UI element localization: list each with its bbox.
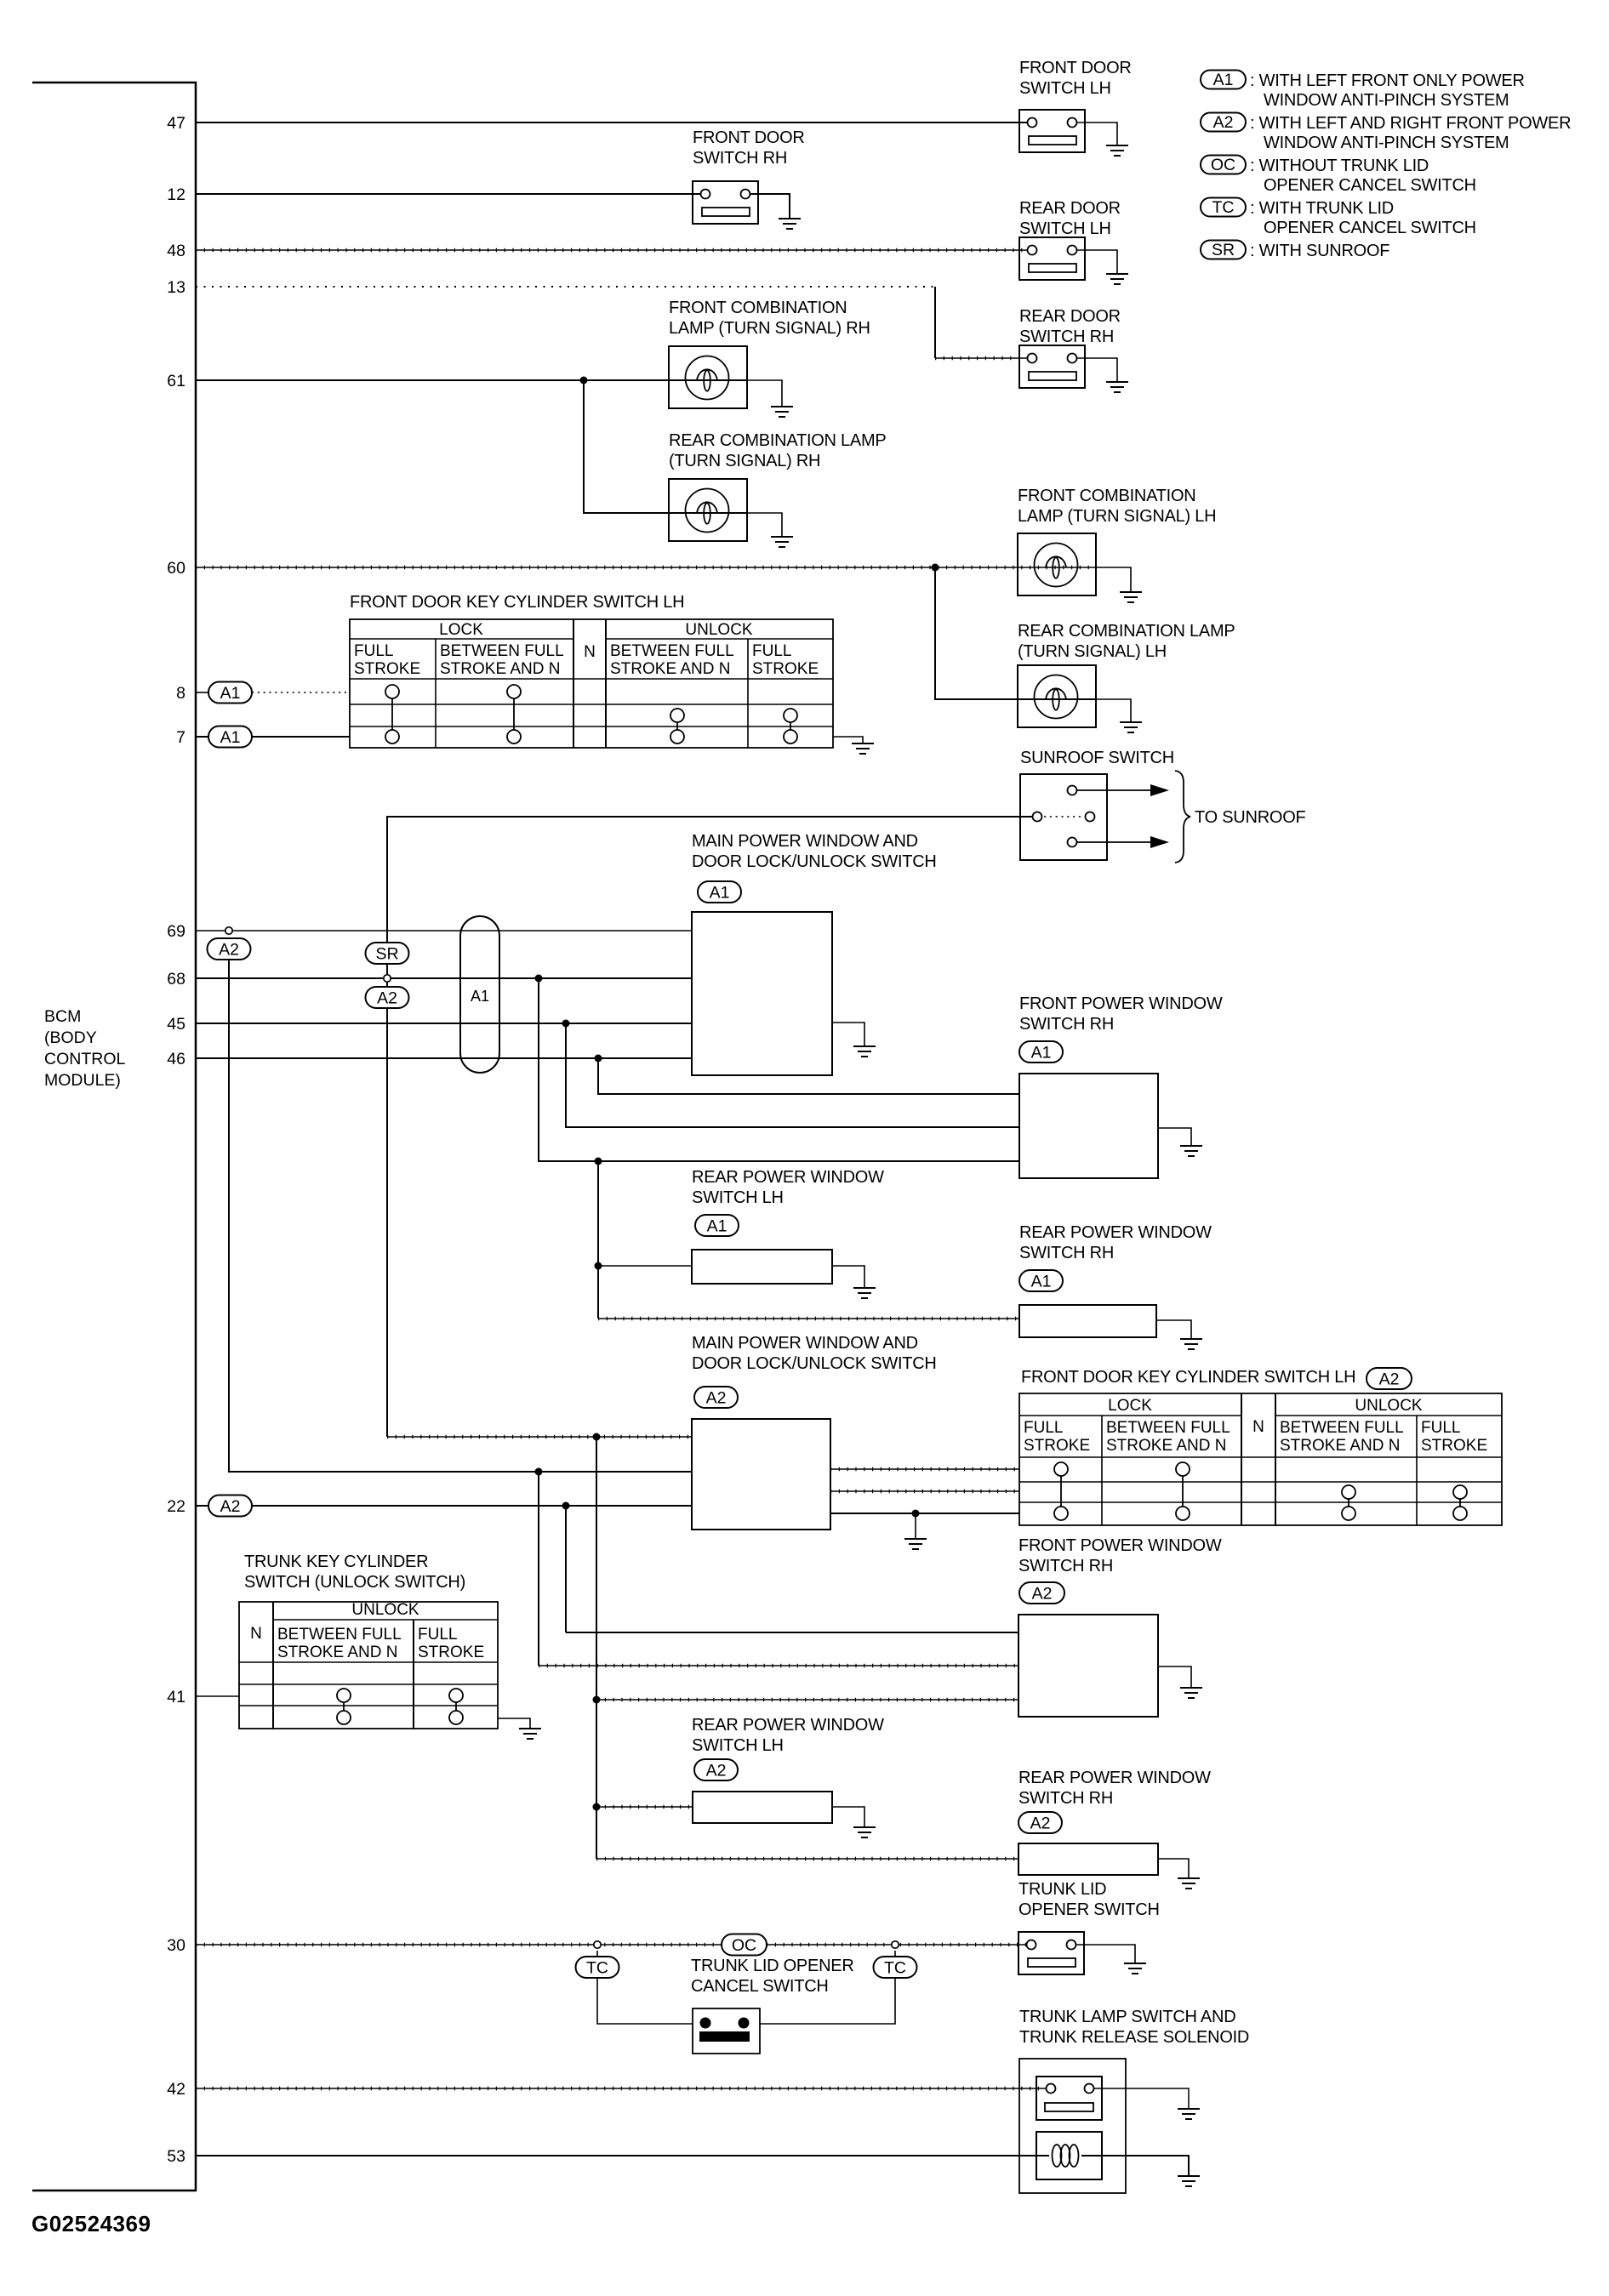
svg-text:STROKE AND N: STROKE AND N (610, 660, 730, 678)
svg-text:FRONT POWER WINDOW: FRONT POWER WINDOW (1018, 1536, 1222, 1555)
wire to front RH A2 pin3 (596, 1699, 1018, 1701)
connector circle TC left (594, 1941, 601, 1948)
rear power window switch LH A2 box (693, 1792, 832, 1823)
front door key cylinder switch LH table A2 (1019, 1393, 1502, 1525)
wire 45 tap to front power window switch RH A1 pin2 (566, 1023, 1019, 1127)
svg-text:41: 41 (167, 1688, 185, 1706)
wire 60 branch down to rear combination lamp LH (935, 567, 1096, 699)
svg-text:MAIN POWER WINDOW AND: MAIN POWER WINDOW AND (692, 832, 918, 851)
svg-text:(TURN SIGNAL) RH: (TURN SIGNAL) RH (669, 452, 820, 470)
wire 13 dotted (196, 286, 935, 288)
option oval A1 (695, 1215, 739, 1236)
front power window switch RH A1 box (1019, 1074, 1158, 1178)
key cylinder A1 ground wire (833, 737, 863, 743)
svg-text:46: 46 (167, 1050, 185, 1068)
trunk lid opener cancel switch (693, 2008, 760, 2054)
wire A2 pin2 tap down (538, 1472, 539, 1666)
trunk lid opener switch (1018, 1932, 1084, 1974)
svg-text:A2: A2 (706, 1389, 727, 1408)
trunk release solenoid ground wire (1081, 2156, 1189, 2176)
wire 22 tap down (565, 1506, 567, 1632)
trunk key cylinder switch table (239, 1601, 498, 1729)
front combination lamp LH (1018, 533, 1096, 595)
svg-text:BETWEEN FULL: BETWEEN FULL (277, 1626, 402, 1644)
svg-text:OPENER SWITCH: OPENER SWITCH (1018, 1900, 1160, 1919)
front combination lamp LH ground wire (1096, 567, 1131, 592)
junction dot wire 46 (595, 1055, 602, 1063)
front RH A1 ground wire (1158, 1128, 1191, 1146)
svg-text:DOOR LOCK/UNLOCK SWITCH: DOOR LOCK/UNLOCK SWITCH (692, 852, 937, 871)
rear LH A1 ground wire (832, 1266, 864, 1288)
junction dot rear LH A1 (595, 1262, 602, 1270)
svg-text:TC: TC (586, 1959, 608, 1978)
sunroof arrow top (1077, 789, 1150, 791)
wire 42 (196, 2088, 1046, 2089)
svg-text:47: 47 (167, 114, 185, 133)
svg-text:TC: TC (1212, 198, 1235, 217)
svg-text:FULL: FULL (1024, 1419, 1063, 1437)
svg-text:A2: A2 (377, 989, 397, 1008)
svg-text:A1: A1 (707, 1217, 727, 1236)
A2 ground stub (915, 1513, 916, 1539)
connector circle wire 69 (225, 927, 232, 934)
junction dot on wire 61 (580, 377, 588, 385)
svg-text:N: N (584, 643, 596, 661)
option oval A2 (694, 1387, 738, 1408)
svg-text:A2: A2 (1030, 1815, 1051, 1833)
svg-text:FRONT DOOR: FRONT DOOR (1019, 59, 1132, 77)
wire to sunroof switch (387, 817, 1032, 944)
wire 61 branch down (584, 380, 747, 513)
option oval A2 (1019, 1582, 1064, 1604)
svg-text:WINDOW ANTI-PINCH SYSTEM: WINDOW ANTI-PINCH SYSTEM (1264, 134, 1509, 152)
svg-text:N: N (250, 1625, 262, 1643)
svg-text:SWITCH LH: SWITCH LH (1019, 219, 1111, 238)
svg-text:STROKE AND N: STROKE AND N (277, 1644, 397, 1661)
A2 switch output wire row2 (830, 1490, 1019, 1492)
svg-text:A2: A2 (219, 941, 239, 960)
svg-text:CONTROL: CONTROL (44, 1050, 125, 1068)
wire 68 (196, 977, 692, 979)
ground (771, 407, 793, 417)
svg-text:STROKE: STROKE (1024, 1437, 1090, 1455)
svg-text:A1: A1 (471, 988, 489, 1005)
svg-text:: WITH SUNROOF: : WITH SUNROOF (1250, 242, 1389, 260)
svg-text:SWITCH LH: SWITCH LH (692, 1188, 784, 1207)
BCM body control module outline (32, 83, 196, 2191)
svg-text:OC: OC (732, 1936, 756, 1955)
svg-text:TRUNK RELEASE SOLENOID: TRUNK RELEASE SOLENOID (1019, 2028, 1249, 2047)
connector circle TC right (892, 1941, 899, 1948)
junction dot on wire 60 (932, 564, 939, 572)
option oval TC right (874, 1957, 917, 1978)
svg-text:LOCK: LOCK (1108, 1397, 1152, 1415)
svg-text:FULL: FULL (1421, 1419, 1460, 1437)
svg-text:13: 13 (167, 278, 185, 297)
svg-text:CANCEL SWITCH: CANCEL SWITCH (691, 1977, 829, 1996)
wire 48 (196, 249, 1027, 251)
option oval A2 on wire 22 (208, 1496, 252, 1517)
svg-text:A2: A2 (706, 1762, 727, 1780)
wire 12 (196, 193, 700, 195)
junction dot A2 pin2 wire (535, 1468, 543, 1476)
svg-text:SWITCH RH: SWITCH RH (693, 149, 787, 168)
wire to front RH A2 pin1 (566, 1632, 1018, 1633)
svg-text:REAR DOOR: REAR DOOR (1019, 307, 1121, 326)
rear combination lamp RH (669, 479, 747, 541)
rear combination lamp LH (1018, 665, 1096, 727)
svg-text:: WITH TRUNK LID: : WITH TRUNK LID (1250, 199, 1394, 218)
ground (1180, 1688, 1202, 1698)
svg-text:A1: A1 (220, 728, 241, 747)
wire to rear power window switch LH A1 (598, 1265, 692, 1267)
svg-text:DOOR LOCK/UNLOCK SWITCH: DOOR LOCK/UNLOCK SWITCH (692, 1354, 937, 1373)
svg-text:REAR POWER WINDOW: REAR POWER WINDOW (692, 1716, 884, 1735)
front power window switch RH A2 box (1018, 1615, 1158, 1717)
vertical wire to rear power window switches A1 (597, 1161, 599, 1319)
svg-text:SWITCH (UNLOCK SWITCH): SWITCH (UNLOCK SWITCH) (244, 1573, 465, 1592)
option oval A1 (1019, 1041, 1063, 1063)
svg-text:OC: OC (1211, 156, 1235, 174)
svg-text:30: 30 (167, 1936, 185, 1955)
trunk lamp switch ground wire (1094, 2088, 1189, 2109)
option oval A2 under wire 69 (208, 938, 251, 960)
svg-text:: WITH LEFT AND RIGHT FRONT PO: : WITH LEFT AND RIGHT FRONT POWER (1250, 114, 1571, 133)
svg-text:STROKE AND N: STROKE AND N (440, 660, 560, 678)
svg-text:FRONT COMBINATION: FRONT COMBINATION (1018, 487, 1195, 505)
legend oval A1 (1201, 71, 1246, 89)
junction dot A2 pin1 wire (593, 1433, 601, 1441)
svg-text:LAMP (TURN SIGNAL) RH: LAMP (TURN SIGNAL) RH (669, 319, 870, 338)
wire A2 tap down from wire 68 (386, 1008, 388, 1437)
junction dot wire 45 (562, 1020, 570, 1028)
svg-text:STROKE: STROKE (1421, 1437, 1487, 1455)
junction dot pin3 wire (593, 1696, 601, 1704)
front door key cylinder switch LH table A1 (350, 619, 833, 748)
wire A2 tap down from wire 69 (229, 960, 692, 1472)
wire SR oval to wire 68 (386, 964, 388, 987)
rear power window switch RH A1 box (1019, 1305, 1156, 1337)
junction dot wire 22 (562, 1502, 570, 1510)
ground (1106, 145, 1128, 156)
vertical wire down from A2 pin1 wire (596, 1437, 597, 1859)
svg-text:REAR COMBINATION LAMP: REAR COMBINATION LAMP (669, 431, 887, 450)
svg-text:12: 12 (167, 185, 185, 204)
wire to rear door switch RH (935, 357, 1027, 359)
svg-text:TO SUNROOF: TO SUNROOF (1195, 808, 1306, 827)
wire 69 (196, 930, 692, 932)
option oval OC on wire 30 (722, 1934, 767, 1956)
svg-text:OPENER CANCEL SWITCH: OPENER CANCEL SWITCH (1264, 176, 1476, 195)
trunk lamp switch and solenoid outer box (1019, 2059, 1126, 2193)
svg-text:STROKE: STROKE (752, 660, 819, 678)
svg-text:(BODY: (BODY (44, 1028, 97, 1047)
svg-text:SWITCH LH: SWITCH LH (692, 1736, 784, 1755)
svg-text:SWITCH RH: SWITCH RH (1018, 1789, 1113, 1808)
option oval A1 on wire 8 (208, 682, 252, 704)
svg-text:A2: A2 (1379, 1370, 1400, 1389)
brace to sunroof (1175, 771, 1190, 863)
svg-text:REAR POWER WINDOW: REAR POWER WINDOW (692, 1168, 884, 1187)
capsule A1 (460, 916, 499, 1073)
svg-text:OPENER CANCEL SWITCH: OPENER CANCEL SWITCH (1264, 219, 1476, 237)
wire 45 (196, 1023, 692, 1024)
legend oval TC (1201, 198, 1246, 217)
A2 switch output wire row3 (830, 1513, 1019, 1514)
ground (1120, 592, 1142, 602)
wire 47 (196, 122, 1027, 123)
sunroof arrow bottom (1077, 841, 1150, 843)
legend oval OC (1201, 156, 1246, 174)
ground (1180, 1339, 1202, 1349)
svg-text:69: 69 (167, 922, 185, 941)
wire 46 tap to front power window switch RH A1 pin1 (598, 1058, 1019, 1094)
svg-text:: WITH LEFT FRONT ONLY POWER: : WITH LEFT FRONT ONLY POWER (1250, 71, 1525, 90)
svg-text:REAR POWER WINDOW: REAR POWER WINDOW (1018, 1769, 1211, 1787)
ground (1124, 1963, 1146, 1974)
ground (1178, 2176, 1200, 2186)
rear combination lamp LH ground wire (1096, 699, 1131, 722)
svg-text:SWITCH RH: SWITCH RH (1019, 328, 1114, 346)
wire 46 (196, 1057, 692, 1059)
svg-text:22: 22 (167, 1497, 185, 1516)
svg-text:TC: TC (884, 1959, 906, 1978)
svg-text:FULL: FULL (418, 1626, 457, 1644)
rear door switch LH ground wire (1077, 250, 1117, 274)
rear door switch LH (1019, 237, 1085, 280)
svg-text:SUNROOF SWITCH: SUNROOF SWITCH (1020, 749, 1174, 767)
option oval A1 (698, 881, 741, 903)
trunk lamp switch inner box (1036, 2077, 1102, 2120)
svg-text:7: 7 (176, 728, 185, 747)
svg-text:BETWEEN FULL: BETWEEN FULL (1106, 1419, 1230, 1437)
svg-text:N: N (1252, 1418, 1264, 1436)
svg-text:BCM: BCM (44, 1007, 81, 1026)
option oval TC left (576, 1957, 619, 1978)
legend oval A2 (1201, 113, 1246, 132)
svg-text:: WITHOUT TRUNK LID: : WITHOUT TRUNK LID (1250, 157, 1429, 175)
ground (779, 219, 801, 229)
svg-text:TRUNK LID: TRUNK LID (1018, 1880, 1106, 1899)
svg-text:A1: A1 (1031, 1273, 1052, 1291)
option oval A1 on wire 7 (208, 726, 252, 748)
wire 13 vertical to rear door switch RH (934, 287, 936, 358)
svg-text:FRONT DOOR KEY CYLINDER SWITCH: FRONT DOOR KEY CYLINDER SWITCH LH (350, 593, 684, 612)
legend oval SR (1201, 241, 1246, 259)
front door switch LH ground wire (1077, 122, 1117, 145)
svg-text:STROKE AND N: STROKE AND N (1280, 1437, 1400, 1455)
svg-text:FRONT DOOR KEY CYLINDER SWITCH: FRONT DOOR KEY CYLINDER SWITCH LH (1021, 1368, 1355, 1387)
svg-text:53: 53 (167, 2147, 185, 2166)
svg-text:UNLOCK: UNLOCK (685, 621, 753, 639)
svg-text:REAR POWER WINDOW: REAR POWER WINDOW (1019, 1223, 1212, 1242)
front door switch RH ground wire (750, 194, 790, 219)
rear RH A2 ground wire (1158, 1859, 1189, 1878)
ground (1120, 722, 1142, 732)
rear combination lamp RH ground wire (747, 513, 782, 537)
svg-text:SWITCH LH: SWITCH LH (1019, 79, 1111, 98)
svg-text:FULL: FULL (752, 642, 791, 660)
svg-text:BETWEEN FULL: BETWEEN FULL (610, 642, 734, 660)
wire 41 (196, 1695, 239, 1697)
svg-text:REAR DOOR: REAR DOOR (1019, 199, 1121, 218)
A2 switch output wire row1 (830, 1468, 1019, 1470)
junction dot rear LH A2 wire (593, 1803, 601, 1811)
wire TC right down to cancel switch (760, 1951, 895, 2024)
wire 60 (196, 567, 1096, 568)
svg-text:A1: A1 (1031, 1044, 1052, 1063)
svg-text:61: 61 (167, 372, 185, 390)
svg-text:MODULE): MODULE) (44, 1071, 121, 1090)
wire 7 (196, 736, 350, 738)
ground (853, 1046, 876, 1057)
svg-text:BETWEEN FULL: BETWEEN FULL (440, 642, 564, 660)
ground (1106, 382, 1128, 392)
front RH A2 ground wire (1158, 1666, 1191, 1688)
ground (1180, 1146, 1202, 1156)
ground (904, 1539, 927, 1549)
option oval A2 (1018, 1812, 1062, 1833)
ground (853, 1288, 876, 1298)
trunk lid opener switch ground wire (1076, 1945, 1135, 1963)
svg-text:WINDOW ANTI-PINCH SYSTEM: WINDOW ANTI-PINCH SYSTEM (1264, 91, 1509, 110)
junction dot on pin3 wire (595, 1158, 602, 1165)
svg-text:TRUNK LID OPENER: TRUNK LID OPENER (691, 1957, 854, 1975)
trunk key cylinder ground wire (498, 1718, 530, 1729)
svg-text:STROKE: STROKE (354, 660, 420, 678)
svg-text:SWITCH RH: SWITCH RH (1019, 1244, 1114, 1262)
ground (771, 537, 793, 547)
main power window and door lock/unlock switch A1 box (692, 912, 832, 1075)
svg-text:REAR COMBINATION LAMP: REAR COMBINATION LAMP (1018, 622, 1235, 641)
rear door switch RH (1019, 345, 1085, 388)
wire 61 (196, 379, 747, 381)
svg-text:STROKE: STROKE (418, 1644, 484, 1661)
wire 22 (196, 1505, 692, 1507)
wire A2 pin1 (387, 1436, 692, 1438)
svg-text:SWITCH RH: SWITCH RH (1019, 1015, 1114, 1034)
rear LH A2 ground wire (832, 1807, 864, 1827)
svg-text:A1: A1 (710, 884, 730, 903)
svg-text:48: 48 (167, 242, 185, 260)
svg-text:68: 68 (167, 970, 185, 988)
svg-text:LOCK: LOCK (439, 621, 483, 639)
svg-text:FULL: FULL (354, 642, 393, 660)
svg-text:FRONT COMBINATION: FRONT COMBINATION (669, 299, 847, 317)
wire to rear RH A2 (596, 1858, 1018, 1860)
svg-text:SR: SR (375, 945, 398, 964)
option oval A2 (1367, 1368, 1412, 1389)
rear RH A1 ground wire (1156, 1320, 1191, 1339)
svg-text:42: 42 (167, 2080, 185, 2099)
connector circle wire 68 (384, 975, 391, 982)
svg-text:SWITCH RH: SWITCH RH (1018, 1557, 1113, 1575)
svg-text:A2: A2 (1213, 113, 1234, 132)
wire to rear LH A2 (596, 1806, 693, 1808)
svg-text:A1: A1 (1213, 71, 1234, 89)
wire 53 (196, 2155, 1049, 2156)
ground (1178, 1878, 1200, 1889)
rear power window switch LH A1 box (692, 1250, 832, 1284)
junction dot wire 68 (535, 975, 543, 983)
main A1 ground wire (832, 1023, 864, 1046)
svg-text:FRONT POWER WINDOW: FRONT POWER WINDOW (1019, 994, 1223, 1013)
option oval SR (366, 943, 409, 964)
wire 68 tap to front power window switch RH A1 pin3 (539, 978, 1019, 1161)
option oval A2 under wire 68 (366, 987, 409, 1008)
wire 8 (196, 692, 208, 693)
svg-text:TRUNK KEY CYLINDER: TRUNK KEY CYLINDER (244, 1553, 428, 1571)
ground (853, 1827, 876, 1837)
front combination lamp RH ground wire (747, 380, 782, 407)
wire TC left down to cancel switch (597, 1951, 693, 2024)
front combination lamp RH (669, 346, 747, 408)
front door switch RH (693, 181, 758, 224)
sunroof switch (1020, 774, 1107, 860)
svg-text:SR: SR (1212, 241, 1235, 259)
svg-text:MAIN POWER WINDOW AND: MAIN POWER WINDOW AND (692, 1334, 918, 1353)
svg-text:FRONT DOOR: FRONT DOOR (693, 128, 805, 147)
wire to front RH A2 pin2 (539, 1665, 1018, 1666)
junction dot ground tap (912, 1510, 920, 1518)
svg-text:UNLOCK: UNLOCK (351, 1601, 419, 1619)
svg-text:45: 45 (167, 1015, 185, 1034)
trunk release solenoid inner box (1036, 2132, 1102, 2179)
wire to rear power window switch RH A1 (598, 1318, 1019, 1319)
svg-text:A2: A2 (220, 1497, 241, 1516)
ground (519, 1729, 541, 1739)
rear door switch RH ground wire (1077, 358, 1117, 382)
svg-text:TRUNK LAMP SWITCH AND: TRUNK LAMP SWITCH AND (1019, 2008, 1235, 2026)
svg-text:LAMP (TURN SIGNAL) LH: LAMP (TURN SIGNAL) LH (1018, 507, 1216, 526)
svg-text:BETWEEN FULL: BETWEEN FULL (1280, 1419, 1404, 1437)
svg-text:60: 60 (167, 559, 185, 578)
svg-text:A2: A2 (1032, 1585, 1053, 1604)
front door switch LH (1019, 110, 1085, 152)
svg-text:STROKE AND N: STROKE AND N (1106, 1437, 1226, 1455)
svg-text:8: 8 (176, 684, 185, 703)
option oval A1 (1019, 1270, 1063, 1291)
main power window and door lock/unlock switch A2 box (692, 1419, 830, 1530)
wire 30 (196, 1944, 1026, 1946)
svg-text:UNLOCK: UNLOCK (1355, 1397, 1423, 1415)
ground (852, 743, 874, 754)
svg-text:G02524369: G02524369 (31, 2211, 151, 2236)
ground (1178, 2109, 1200, 2119)
option oval A2 (694, 1759, 738, 1780)
rear power window switch RH A2 box (1018, 1843, 1158, 1875)
svg-text:(TURN SIGNAL) LH: (TURN SIGNAL) LH (1018, 642, 1167, 661)
ground (1106, 274, 1128, 284)
svg-text:A1: A1 (220, 684, 241, 703)
